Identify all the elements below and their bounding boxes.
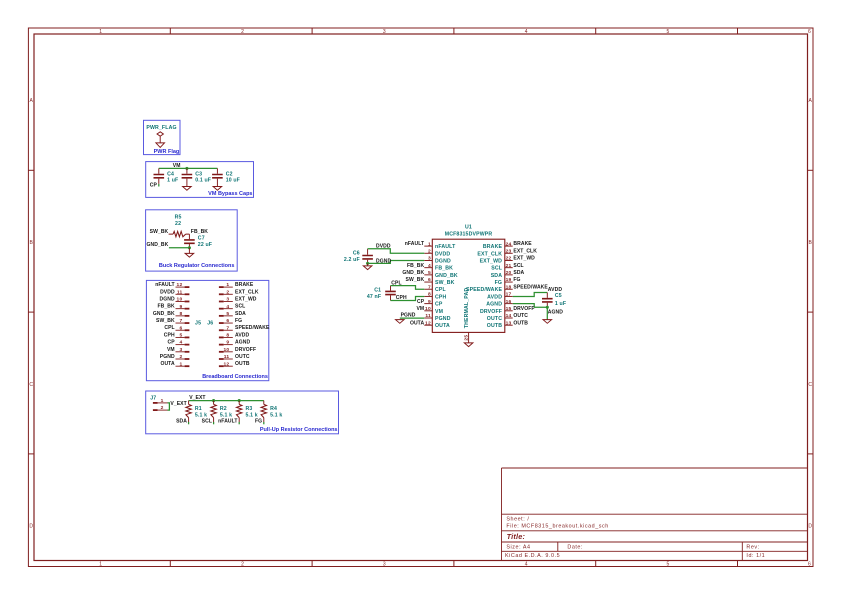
svg-text:2: 2 (161, 405, 164, 411)
svg-text:22 uF: 22 uF (198, 242, 212, 248)
svg-text:12: 12 (177, 282, 183, 288)
U1 pin 7 CPL (424, 284, 446, 293)
svg-text:7: 7 (428, 284, 431, 290)
svg-text:SPEED/WAKE: SPEED/WAKE (466, 287, 502, 293)
resistor R3 (237, 401, 258, 422)
svg-text:4: 4 (525, 29, 528, 35)
svg-text:OUTB: OUTB (235, 361, 250, 367)
connector J5 pin 10 DGND (160, 297, 190, 303)
svg-text:FG: FG (255, 419, 262, 425)
svg-text:OUTB: OUTB (513, 320, 528, 326)
capacitor C1 (367, 286, 396, 301)
graphic box: pull-up resistors (146, 391, 339, 434)
svg-text:VM: VM (416, 306, 424, 312)
ground at C6 (367, 263, 369, 265)
svg-text:2: 2 (241, 561, 244, 567)
svg-text:1 uF: 1 uF (555, 301, 566, 307)
svg-text:1 uF: 1 uF (167, 178, 178, 184)
svg-text:SCL: SCL (513, 263, 523, 269)
resistor R4 (261, 401, 282, 422)
svg-text:10: 10 (223, 347, 229, 353)
graphic box: VM bypass caps (146, 162, 254, 198)
svg-text:DVDD: DVDD (435, 251, 450, 257)
U1 pin 10 VM (424, 306, 443, 315)
svg-text:OUTA: OUTA (160, 361, 175, 367)
svg-text:C5: C5 (555, 293, 562, 299)
svg-text:3: 3 (383, 561, 386, 567)
svg-text:17: 17 (506, 292, 512, 298)
svg-text:R5: R5 (175, 215, 182, 221)
svg-text:4: 4 (525, 561, 528, 567)
svg-text:EXT_WD: EXT_WD (513, 256, 535, 262)
capacitor C3 (182, 168, 211, 186)
svg-text:nFAULT: nFAULT (405, 241, 425, 247)
svg-text:EXT_CLK: EXT_CLK (477, 251, 502, 257)
svg-text:DVDD: DVDD (160, 289, 175, 295)
svg-text:BRAKE: BRAKE (235, 282, 254, 288)
svg-text:BRAKE: BRAKE (513, 241, 532, 247)
connector J6 pin 5 SDA (219, 311, 246, 317)
svg-text:AGND: AGND (548, 310, 563, 316)
svg-text:Date:: Date: (567, 545, 583, 551)
svg-text:C: C (808, 382, 812, 388)
svg-text:OUTA: OUTA (410, 320, 425, 326)
graphic box: buck regulator (146, 210, 238, 271)
capacitor C4 (154, 168, 179, 184)
connector J6 pin 9 AGND (219, 340, 251, 346)
wire AVDD (513, 293, 548, 297)
U1 pin 17 AVDD (487, 292, 513, 301)
graphic box: breadboard connections (146, 280, 268, 380)
svg-text:U1: U1 (465, 225, 472, 231)
ground at C7 (188, 248, 190, 254)
U1 pin 12 OUTA (424, 320, 450, 329)
wire at R3 bottom (238, 422, 240, 424)
svg-text:3: 3 (428, 256, 431, 262)
svg-text:4: 4 (428, 263, 431, 269)
svg-text:11: 11 (177, 289, 183, 295)
wire AGND (513, 304, 548, 308)
connector J5 pin 7 SW_BK (156, 318, 189, 324)
connector J5 pin 8 GND_BK (153, 311, 189, 317)
svg-text:16: 16 (506, 299, 512, 305)
connector J5 pin 11 DVDD (160, 289, 189, 295)
svg-text:10 uF: 10 uF (226, 178, 240, 184)
connector J7 pin 2 (153, 405, 168, 411)
svg-text:CPH: CPH (435, 294, 447, 300)
svg-text:Id: 1/1: Id: 1/1 (746, 553, 765, 559)
svg-text:PWR_FLAG: PWR_FLAG (146, 125, 176, 131)
connector J5 pin 1 OUTA (160, 361, 189, 367)
svg-text:MCF8315DVPWPR: MCF8315DVPWPR (445, 232, 493, 238)
svg-text:0.1 uF: 0.1 uF (195, 178, 211, 184)
svg-text:5.1 k: 5.1 k (270, 413, 282, 419)
svg-text:1: 1 (428, 241, 431, 247)
resistor R1 (186, 401, 207, 422)
svg-text:AVDD: AVDD (235, 332, 250, 338)
svg-text:6: 6 (808, 561, 811, 567)
capacitor C5 (542, 293, 566, 308)
ground at PGND (396, 320, 405, 324)
svg-text:VM: VM (167, 347, 175, 353)
svg-text:SCL: SCL (202, 419, 212, 425)
svg-text:AGND: AGND (235, 340, 250, 346)
U1 pin 22 EXT_WD (480, 256, 513, 265)
svg-text:GND_BK: GND_BK (435, 273, 458, 279)
connector J6 pin 12 OUTB (219, 361, 250, 367)
wire GND_BK (169, 247, 190, 249)
ground at AGND (543, 320, 552, 324)
svg-text:14: 14 (506, 313, 512, 319)
svg-text:18: 18 (506, 284, 512, 290)
svg-text:OUTC: OUTC (235, 354, 250, 360)
connector J6 pin 7 SPEED/WAKE (219, 325, 270, 331)
svg-text:R2: R2 (220, 406, 227, 412)
connector J6 pin 2 EXT_CLK (219, 289, 259, 295)
svg-text:21: 21 (506, 263, 512, 269)
junction at C6 (366, 262, 369, 265)
svg-text:J6: J6 (207, 321, 213, 327)
svg-text:CP: CP (168, 340, 176, 346)
svg-text:CPL: CPL (164, 325, 174, 331)
svg-text:BRAKE: BRAKE (483, 244, 503, 250)
svg-text:V_EXT: V_EXT (170, 401, 187, 407)
U1 pin 8 CPH (424, 292, 446, 301)
svg-text:EXT_WD: EXT_WD (480, 259, 503, 265)
svg-text:EXT_CLK: EXT_CLK (235, 289, 259, 295)
connector J7 pin 1 (153, 398, 168, 404)
U1 pin 16 AGND (486, 299, 512, 308)
svg-text:SW_BK: SW_BK (150, 229, 169, 235)
svg-text:CPL: CPL (435, 287, 447, 293)
svg-text:22: 22 (506, 256, 512, 262)
svg-text:VM Bypass Caps: VM Bypass Caps (208, 191, 252, 197)
svg-text:D: D (29, 524, 33, 530)
U1 pin 18 SPEED/WAKE (466, 284, 513, 293)
svg-text:GND_BK: GND_BK (402, 270, 424, 276)
svg-text:13: 13 (506, 320, 512, 326)
connector J5 pin 12 nFAULT (155, 282, 189, 288)
svg-text:C4: C4 (167, 171, 174, 177)
svg-text:6: 6 (808, 29, 811, 35)
U1 pin 6 SW_BK (424, 277, 454, 286)
svg-text:PGND: PGND (435, 316, 451, 322)
svg-text:CP: CP (435, 302, 443, 308)
U1 pin 24 BRAKE (483, 241, 513, 250)
svg-text:PWR Flag: PWR Flag (154, 149, 180, 155)
svg-text:3: 3 (383, 29, 386, 35)
svg-text:23: 23 (506, 249, 512, 255)
svg-text:9: 9 (226, 340, 229, 346)
wire DGND (368, 261, 425, 264)
svg-text:Sheet: /: Sheet: / (506, 516, 529, 522)
svg-text:SPEED/WAKE: SPEED/WAKE (513, 284, 548, 290)
svg-text:VM: VM (173, 163, 181, 169)
U1 pin 1 nFAULT (424, 241, 456, 250)
svg-text:OUTC: OUTC (513, 313, 528, 319)
svg-text:nFAULT: nFAULT (155, 282, 175, 288)
svg-text:2: 2 (179, 354, 182, 360)
svg-text:5: 5 (428, 270, 431, 276)
svg-text:Pull-Up Resistor Connections: Pull-Up Resistor Connections (260, 427, 338, 433)
graphic box: power flag (144, 120, 181, 154)
U1 pin 19 FG (495, 277, 513, 286)
ground at C2 (213, 187, 222, 191)
svg-text:8: 8 (428, 292, 431, 298)
svg-text:OUTB: OUTB (487, 323, 502, 329)
svg-text:SW_BK: SW_BK (156, 318, 175, 324)
U1 pin 3 DGND (424, 256, 451, 265)
connector J5 pin 9 FB_BK (157, 304, 189, 310)
svg-text:5: 5 (226, 311, 229, 317)
svg-text:22: 22 (175, 221, 181, 227)
capacitor C7 (184, 236, 212, 249)
U1 pin 9 CP (424, 299, 443, 308)
IC U1 MCF8315DVPWPR body (432, 239, 505, 332)
svg-text:11: 11 (425, 313, 431, 319)
svg-text:PGND: PGND (401, 313, 416, 319)
svg-text:GND_BK: GND_BK (147, 242, 169, 248)
connector J6 pin 3 EXT_WD (219, 297, 257, 303)
svg-text:R3: R3 (246, 406, 253, 412)
U1 pin 20 SDA (491, 270, 513, 279)
svg-text:1: 1 (161, 398, 164, 404)
svg-text:3: 3 (179, 347, 182, 353)
junction at C3 (185, 167, 188, 170)
svg-text:File: MCF8315_breakout.kicad_s: File: MCF8315_breakout.kicad_sch (506, 523, 608, 529)
svg-text:OUTA: OUTA (435, 323, 450, 329)
svg-text:9: 9 (179, 304, 182, 310)
svg-text:DRVOFF: DRVOFF (480, 309, 502, 315)
svg-text:C6: C6 (353, 251, 360, 257)
power flag PWR_FLAG (146, 125, 176, 147)
connector J6 pin 11 OUTC (219, 354, 250, 360)
svg-text:KiCad E.D.A. 9.0.5: KiCad E.D.A. 9.0.5 (505, 553, 560, 559)
svg-text:AVDD: AVDD (487, 294, 502, 300)
svg-text:2: 2 (226, 289, 229, 295)
connector J5 pin 3 VM (167, 347, 189, 353)
wire AGND down (546, 307, 548, 319)
svg-text:8: 8 (226, 333, 229, 339)
svg-text:1: 1 (99, 561, 102, 567)
resistor R2 (211, 401, 232, 422)
svg-text:C2: C2 (226, 171, 233, 177)
wire at R1 bottom (188, 422, 190, 424)
svg-text:24: 24 (506, 241, 512, 247)
svg-text:6: 6 (179, 325, 182, 331)
connector J6 pin 10 DRVOFF (219, 347, 256, 353)
svg-text:SCL: SCL (235, 304, 245, 310)
wire VM bus (159, 167, 218, 169)
connector J6 pin 4 SCL (219, 304, 245, 310)
connector J6 pin 6 FG (219, 318, 242, 324)
svg-text:C7: C7 (198, 236, 205, 242)
svg-text:CP: CP (150, 182, 158, 188)
connector J6 pin 8 AVDD (219, 332, 250, 338)
svg-text:nFAULT: nFAULT (218, 419, 238, 425)
wire V_EXT bus (189, 400, 264, 402)
svg-text:47 nF: 47 nF (367, 294, 381, 300)
capacitor C6 (344, 249, 373, 264)
svg-text:19: 19 (506, 277, 512, 283)
svg-text:FG: FG (235, 318, 242, 324)
svg-text:J5: J5 (195, 321, 201, 327)
svg-text:PGND: PGND (160, 354, 175, 360)
svg-text:DRVOFF: DRVOFF (513, 306, 534, 312)
svg-text:1: 1 (226, 282, 229, 288)
svg-text:9: 9 (428, 299, 431, 305)
svg-text:C1: C1 (374, 288, 381, 294)
svg-text:15: 15 (506, 306, 512, 312)
connector J5 pin 2 PGND (160, 354, 190, 360)
ground at C3 (183, 187, 192, 191)
svg-text:SCL: SCL (491, 266, 503, 272)
svg-text:EXT_CLK: EXT_CLK (513, 248, 537, 254)
svg-text:J7: J7 (150, 396, 156, 402)
U1 pin 2 DVDD (424, 249, 450, 258)
svg-text:THERMAL_PAD: THERMAL_PAD (464, 288, 470, 329)
connector J5 pin 4 CP (168, 340, 190, 346)
svg-text:5: 5 (179, 333, 182, 339)
U1 pin 5 GND_BK (424, 270, 458, 279)
svg-text:AVDD: AVDD (548, 287, 563, 293)
U1 pin 15 DRVOFF (480, 306, 513, 315)
svg-text:7: 7 (226, 325, 229, 331)
svg-text:Buck Regulator Connections: Buck Regulator Connections (159, 263, 234, 269)
svg-text:Title:: Title: (507, 532, 526, 541)
svg-text:FG: FG (495, 280, 503, 286)
svg-text:5: 5 (667, 561, 670, 567)
svg-text:SDA: SDA (513, 270, 524, 276)
junction at C7 (188, 246, 191, 249)
svg-text:DVDD: DVDD (376, 244, 391, 250)
connector J5 pin 6 CPL (164, 325, 189, 331)
resistor R5 (169, 215, 190, 237)
svg-text:3: 3 (226, 297, 229, 303)
wire at R4 bottom (263, 422, 265, 424)
svg-text:12: 12 (425, 320, 431, 326)
svg-text:FG: FG (513, 277, 520, 283)
wire J7 tie (168, 403, 170, 410)
svg-text:SW_BK: SW_BK (406, 277, 425, 283)
svg-text:1: 1 (179, 361, 182, 367)
svg-text:R4: R4 (270, 406, 277, 412)
svg-text:FB_BK: FB_BK (157, 304, 174, 310)
svg-text:Rev:: Rev: (746, 545, 759, 551)
svg-text:1: 1 (99, 29, 102, 35)
svg-text:Breadboard Connections: Breadboard Connections (202, 374, 268, 380)
svg-text:VM: VM (435, 309, 443, 315)
svg-text:SDA: SDA (176, 419, 187, 425)
svg-text:2: 2 (428, 249, 431, 255)
svg-text:GND_BK: GND_BK (153, 311, 175, 317)
svg-text:12: 12 (223, 361, 229, 367)
svg-text:7: 7 (179, 318, 182, 324)
svg-text:Size: A4: Size: A4 (506, 545, 530, 551)
svg-text:DGND: DGND (376, 258, 391, 264)
U1 pin 14 OUTC (487, 313, 513, 322)
junction at R2 (212, 399, 215, 402)
svg-text:11: 11 (224, 354, 230, 360)
svg-text:SDA: SDA (491, 273, 503, 279)
svg-text:AGND: AGND (486, 302, 502, 308)
connector J5 pin 5 CPH (164, 332, 190, 338)
svg-text:CP: CP (417, 299, 425, 305)
svg-text:8: 8 (179, 311, 182, 317)
wire CP stub (158, 184, 160, 187)
svg-text:CPH: CPH (164, 332, 175, 338)
svg-text:DRVOFF: DRVOFF (235, 347, 256, 353)
connector J6 pin 1 BRAKE (219, 282, 254, 288)
junction at R3 (238, 399, 241, 402)
U1 pin 11 PGND (424, 313, 450, 322)
svg-text:10: 10 (425, 306, 431, 312)
svg-text:C3: C3 (195, 171, 202, 177)
capacitor C2 (212, 168, 240, 186)
svg-text:6: 6 (226, 318, 229, 324)
U1 pin 4 FB_BK (424, 263, 453, 272)
wire CPH (391, 297, 425, 301)
svg-text:20: 20 (506, 270, 512, 276)
wire at R2 bottom (213, 422, 215, 424)
svg-text:EXT_WD: EXT_WD (235, 297, 257, 303)
wire DVDD (368, 249, 425, 254)
svg-text:4: 4 (226, 304, 229, 310)
svg-text:SW_BK: SW_BK (435, 280, 455, 286)
svg-text:OUTC: OUTC (487, 316, 502, 322)
wire CPL (391, 286, 425, 290)
svg-text:5: 5 (667, 29, 670, 35)
wire R5 to C7 (188, 234, 190, 239)
svg-text:2: 2 (241, 29, 244, 35)
svg-text:FB_BK: FB_BK (435, 266, 453, 272)
svg-text:C: C (29, 382, 33, 388)
svg-text:10: 10 (177, 297, 183, 303)
svg-text:2.2 uF: 2.2 uF (344, 257, 360, 263)
svg-text:SPEED/WAKE: SPEED/WAKE (235, 325, 270, 331)
svg-text:FB_BK: FB_BK (191, 229, 208, 235)
svg-text:SDA: SDA (235, 311, 246, 317)
svg-text:CPH: CPH (396, 295, 407, 301)
ground at thermal pad (464, 343, 473, 347)
U1 pin 23 EXT_CLK (477, 249, 512, 258)
svg-text:6: 6 (428, 277, 431, 283)
svg-text:DGND: DGND (160, 297, 175, 303)
U1 pin 21 SCL (491, 263, 512, 272)
svg-text:V_EXT: V_EXT (189, 395, 206, 401)
U1 pin 13 OUTB (487, 320, 513, 329)
svg-text:D: D (808, 524, 812, 530)
svg-text:nFAULT: nFAULT (435, 244, 456, 250)
svg-text:R1: R1 (195, 406, 202, 412)
svg-text:FB_BK: FB_BK (407, 263, 424, 269)
wire PGND (400, 317, 425, 319)
svg-text:CPL: CPL (391, 280, 401, 286)
U1 pin 25 THERMAL_PAD (464, 288, 471, 343)
svg-text:4: 4 (179, 340, 182, 346)
svg-text:DGND: DGND (435, 259, 451, 265)
junction at C5 (546, 306, 549, 309)
